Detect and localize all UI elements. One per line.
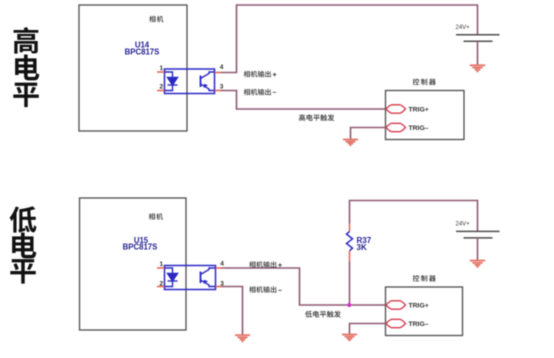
- label 高电平触发: [299, 114, 334, 121]
- label 相机 (top): [149, 16, 163, 22]
- wire 24V rail (bottom): [350, 201, 478, 232]
- svg-text:24V+: 24V+: [456, 25, 471, 31]
- label low-level 低电平: [10, 206, 37, 283]
- pin 3 stub (bottom): [216, 286, 223, 288]
- wire pin3 to ground: [222, 287, 243, 336]
- svg-text:3: 3: [220, 84, 224, 91]
- ground TRIG- (bottom): [342, 335, 357, 341]
- svg-text:TRIG–: TRIG–: [409, 321, 429, 328]
- wire TRIG- to ground (bottom): [350, 324, 387, 335]
- resistor pin stub top: [349, 224, 351, 232]
- label 控制器 (bottom): [413, 275, 436, 282]
- svg-text:–: –: [278, 288, 282, 295]
- svg-text:1: 1: [160, 261, 164, 268]
- label 控制器 (top): [413, 79, 436, 86]
- controller box (top) 控制器: [386, 91, 465, 140]
- svg-text:24V+: 24V+: [456, 222, 471, 228]
- svg-text:1: 1: [160, 65, 164, 72]
- svg-text:–: –: [273, 90, 277, 97]
- ground battery (bottom): [470, 261, 486, 267]
- battery plate long (top): [456, 34, 500, 36]
- ground battery (top): [470, 65, 486, 71]
- label 相机输出+ (bottom): [249, 261, 276, 268]
- label 相机输出+ (top): [244, 71, 271, 78]
- ground TRIG- (top): [343, 140, 358, 146]
- svg-text:4: 4: [220, 261, 224, 268]
- battery lower lead (top): [477, 41, 479, 65]
- svg-text:TRIG+: TRIG+: [409, 107, 429, 114]
- resistor R37: [347, 232, 353, 251]
- svg-text:TRIG–: TRIG–: [409, 125, 429, 132]
- label high-level 高电平: [13, 27, 39, 107]
- pin 2 stub: [157, 90, 165, 92]
- svg-text:3K: 3K: [357, 243, 367, 252]
- wire R37 to node: [349, 262, 351, 306]
- op-amp U14 optocoupler LED: [165, 72, 178, 91]
- op-amp U15 optocoupler LED: [165, 268, 178, 287]
- op-amp U15 optocoupler phototransistor: [201, 268, 216, 287]
- camera box (top) 相机: [79, 5, 187, 131]
- pin 1 stub: [157, 71, 165, 73]
- pin 1 stub (bottom): [157, 267, 165, 269]
- op-amp U15 optocoupler body: [165, 266, 216, 290]
- svg-text:+: +: [273, 72, 277, 79]
- svg-text:4: 4: [220, 64, 224, 71]
- label 低电平触发: [305, 311, 341, 318]
- wire TRIG- to ground (top): [351, 128, 387, 140]
- wire pin3 to TRIG+: [221, 91, 386, 110]
- port TRIG- (top): [386, 123, 406, 131]
- battery plate short (top): [464, 40, 493, 42]
- ground pin3 (bottom): [235, 335, 250, 341]
- label 相机输出- (top): [244, 89, 271, 96]
- controller box (bottom) 控制器: [386, 287, 463, 336]
- op-amp U14 optocoupler phototransistor: [201, 72, 215, 91]
- label 相机输出- (bottom): [249, 286, 276, 293]
- pin 4 stub: [215, 72, 222, 74]
- pin 3 stub: [215, 90, 222, 92]
- resistor pin stub bottom: [349, 251, 351, 262]
- svg-text:TRIG+: TRIG+: [409, 303, 429, 310]
- svg-text:BPC817S: BPC817S: [123, 243, 158, 252]
- op-amp U14 optocoupler body: [165, 69, 215, 94]
- battery plate short (bottom): [464, 237, 493, 239]
- port TRIG+ (top): [386, 105, 406, 113]
- port TRIG- (bottom): [386, 319, 406, 327]
- pin 4 stub (bottom): [216, 267, 223, 269]
- label 相机 (bottom): [149, 213, 163, 219]
- battery lower lead (bottom): [477, 238, 479, 260]
- wire pin4 to 24V rail: [221, 5, 478, 73]
- svg-text:BPC817S: BPC817S: [125, 48, 160, 57]
- port TRIG+ (bottom): [386, 301, 406, 309]
- wire pin4 to TRIG+ node: [222, 268, 386, 305]
- svg-text:2: 2: [160, 84, 164, 91]
- battery plate long (bottom): [456, 230, 500, 232]
- pin 2 stub (bottom): [157, 286, 165, 288]
- svg-text:2: 2: [160, 281, 164, 288]
- svg-text:+: +: [278, 263, 282, 270]
- node junction: [347, 303, 351, 307]
- camera box (bottom) 相机: [80, 198, 187, 330]
